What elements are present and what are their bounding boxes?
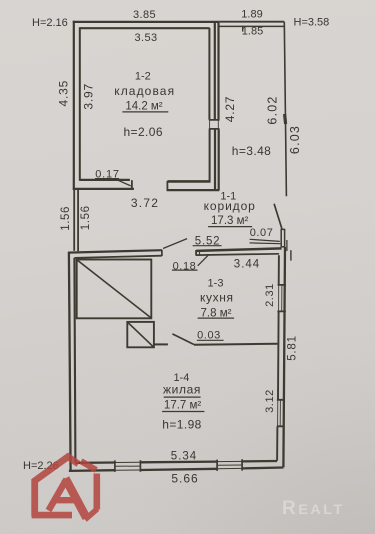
wire: storage bottom wall right segment inner line (167, 180, 210, 183)
node: dimension tick on strip right wall (285, 114, 286, 124)
leader for 0.03 (197, 339, 224, 341)
wall post at corridor right (281, 229, 284, 246)
window W2 thin lines (278, 400, 284, 426)
logo house left wall and roof (35, 457, 79, 516)
node: 6.03 dimension tick bottom (290, 250, 292, 260)
stove F1 diagonal (77, 260, 151, 318)
underline 17.7 m2 (162, 411, 204, 413)
stove F2 small square (127, 322, 154, 347)
logo house bottom-left edge (32, 512, 72, 519)
logo letter A left leg (49, 479, 67, 510)
wire: kitchen top wall thick line (196, 248, 282, 251)
underline zhilaya (164, 396, 201, 398)
wire: lower-left inner wall (74, 258, 75, 463)
wire: storage right wall middle line (214, 22, 216, 190)
wire: corridor left wall inner line (77, 190, 79, 252)
window W1 kitchen: jamb ticks (277, 285, 286, 312)
wire: kitchen top wall inner thin line (196, 254, 279, 255)
wire: right strip top thin wall (219, 21, 284, 23)
wire: storage room inner left wall (79, 27, 81, 180)
door D1 thin leaf lines (210, 121, 219, 129)
wire: storage bottom wall left segment outer line (73, 188, 134, 190)
leader for 0.17 (95, 178, 119, 180)
wire: divider stub from stove (154, 343, 168, 345)
door D3 leaf diagonal kitchen (172, 334, 194, 345)
wire: right wall outer line (283, 247, 285, 467)
stove F1 big rectangle (77, 260, 152, 319)
underline 14.2 m2 (122, 111, 168, 113)
logo roof wedge top-right (81, 461, 96, 470)
wire: outer top wall (storage + strip junction) (73, 21, 220, 23)
wire: storage right wall inner line (door gap 119.5-129.5) (208, 28, 210, 182)
window W2 living room: jamb ticks (277, 400, 285, 427)
logo Realt house A (32, 457, 98, 520)
wire: kitchen-living divider wall (194, 344, 277, 345)
node: dimension tick on strip top wall (242, 26, 244, 32)
wire: corridor bottom beam top line (68, 250, 162, 252)
watermark Realt (282, 498, 345, 519)
window W3 jamb ticks (115, 460, 140, 472)
wire: bottom wall inner line segments (75, 461, 277, 463)
wire: storage inner top wall (80, 27, 210, 29)
wire: corridor bottom beam end cap (161, 250, 163, 256)
logo house right wall (94, 474, 101, 510)
wire: storage right wall east line (217, 22, 219, 190)
underline 7.8 m2 (198, 317, 235, 319)
wire: right wall outer edge near post (286, 240, 288, 251)
leader for 0.18 (172, 269, 198, 271)
wire: right wall inner line segments between windows (277, 255, 279, 461)
wire: corridor left wall outer line (73, 190, 75, 251)
wire: storage room outer left wall (73, 21, 75, 190)
door D2 leaf diagonal (entrance) (274, 204, 282, 229)
wire: lower-left outer wall (69, 252, 71, 471)
wire: storage bottom wall door jamb (131, 180, 133, 189)
stove F2 diagonal (128, 323, 154, 347)
logo letter A right leg (65, 478, 86, 518)
window W4 bottom-right: thin lines and mid (217, 461, 242, 468)
window W1 kitchen thin lines (279, 285, 285, 311)
wire: bottom wall outer line segments (69, 468, 284, 471)
wire: storage bottom wall right segment outer line (167, 189, 220, 191)
window W4 jamb ticks (217, 459, 242, 471)
wire: storage bottom wall right segment end cap (166, 181, 168, 190)
logo house bottom-right edge (85, 509, 97, 520)
window W3 bottom-left: thin lines and mid (115, 462, 140, 470)
leader for 0.07 (250, 239, 281, 243)
wire: right strip top inner line (220, 25, 284, 27)
logo letter A crossbar (56, 497, 74, 503)
leader for 5.52 (193, 245, 222, 247)
wire: kitchen top wall left end cap (195, 250, 197, 256)
underline 17.3 m2 (208, 226, 252, 228)
wire: right strip right thin wall (284, 22, 286, 197)
door D1 jamb ticks in storage right wall (209, 120, 220, 129)
wire: corridor bottom beam bottom line (75, 256, 162, 258)
wire: storage bottom wall left segment inner line (79, 179, 129, 181)
wire: kitchen top wall jamb line (199, 250, 201, 255)
